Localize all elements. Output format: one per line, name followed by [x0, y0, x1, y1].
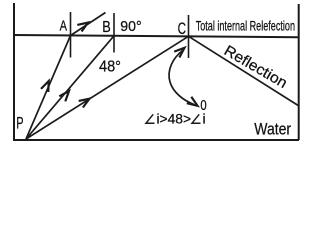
svg-text:i: i	[203, 111, 206, 127]
right border wall	[298, 4, 300, 140]
normal at A	[70, 12, 72, 58]
bottom border	[13, 139, 299, 141]
label angle inequality	[146, 111, 206, 127]
arrowhead on PB	[59, 91, 69, 101]
arrowhead top of curved arrow	[174, 48, 184, 58]
incident ray PC	[26, 36, 189, 139]
svg-text:P: P	[16, 114, 23, 133]
refracted ray at A	[71, 13, 106, 36]
svg-text:i>48>: i>48>	[157, 111, 192, 127]
water surface line	[13, 35, 299, 37]
arrowhead on PA	[41, 81, 49, 92]
arrowhead on PC	[79, 99, 90, 108]
svg-text:A: A	[60, 18, 68, 34]
angle symbol 1	[146, 114, 155, 123]
left border wall	[13, 3, 15, 140]
svg-text:90°: 90°	[120, 18, 141, 35]
angle symbol 2	[192, 114, 201, 123]
reflected ray at C (total internal reflection)	[189, 36, 300, 106]
curved double-headed arrow near C	[169, 51, 194, 105]
svg-text:48°: 48°	[99, 58, 121, 75]
svg-text:C: C	[178, 19, 186, 38]
svg-text:Water: Water	[254, 120, 291, 139]
normal at B	[113, 13, 115, 53]
incident ray PB	[26, 36, 114, 139]
arrowhead on refracted ray at A	[77, 23, 88, 32]
arrowhead bottom of curved arrow	[187, 97, 198, 106]
normal at C	[188, 15, 190, 58]
svg-text:Total internal Relefection: Total internal Relefection	[196, 19, 295, 34]
incident ray PA	[26, 36, 71, 140]
svg-text:B: B	[102, 19, 111, 36]
